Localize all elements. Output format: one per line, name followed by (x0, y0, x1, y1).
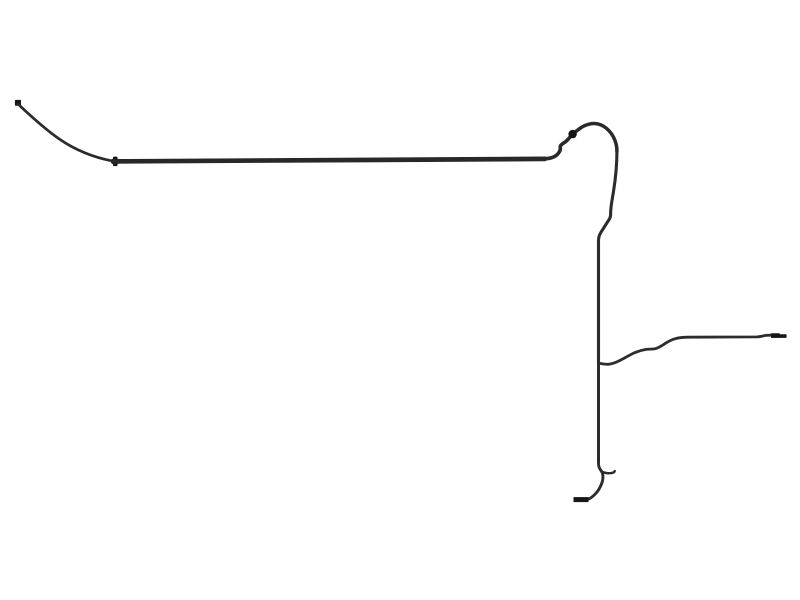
lower vertical tube (597, 363, 600, 463)
wavy branch tube (tee to the right) (599, 335, 771, 364)
bottom S-curve (tube sweeping down-left) (585, 460, 603, 500)
riser with joggle (tube rising from main run toward clip) (544, 134, 573, 159)
descending tube (right side drop with jog) (599, 150, 617, 364)
left thin tube (curved drop from cap to inline fitting) (19, 105, 113, 161)
bottom elbow stub (short nipple to the right) (602, 471, 615, 473)
mounting clip (dark grommet on riser) (568, 130, 576, 138)
inline fitting (spool connector at x=115) (111, 157, 119, 167)
bottom end fitting (left-pointing connector) (574, 497, 589, 502)
branch end fitting (right connector) (771, 333, 787, 338)
end cap (top-left square terminal) (15, 100, 21, 106)
upper arc (tube looping over the top) (573, 124, 617, 152)
main horizontal tube (113, 159, 545, 162)
